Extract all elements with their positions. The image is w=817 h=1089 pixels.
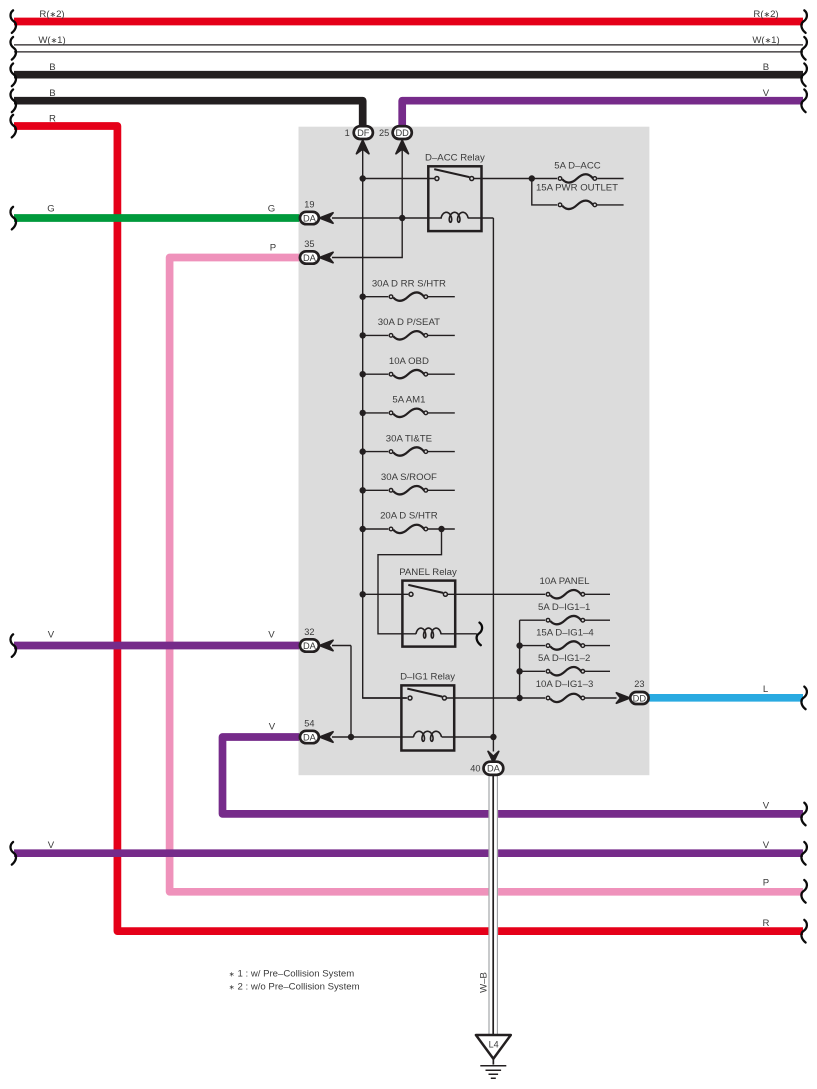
wire R left to bottom R [14, 126, 803, 931]
connector DD pin 23 [630, 692, 648, 704]
wire left fuse row 3 output [426, 373, 455, 375]
svg-text:D–ACC Relay: D–ACC Relay [425, 153, 485, 164]
wire B to DF pin 1 [14, 101, 363, 126]
break mark left edge B [10, 90, 15, 113]
svg-text:DA: DA [303, 253, 317, 263]
break mark right edge V [801, 842, 806, 865]
wire D-ACC relay contact feed [363, 178, 435, 180]
svg-text:V: V [48, 630, 55, 641]
break mark right edge L [801, 687, 806, 710]
svg-text:30A D P/SEAT: 30A D P/SEAT [378, 317, 440, 328]
svg-text:1: 1 [345, 128, 350, 138]
connector DA pin 40 [484, 762, 504, 775]
node IG1 bus tap output line [516, 695, 522, 701]
break mark right edge W(*1) [801, 37, 806, 60]
wire left fuse row 2 feed [363, 334, 389, 336]
wire G to DA pin 19 [14, 214, 299, 222]
connector DD pin 25 [393, 126, 412, 139]
svg-text:B: B [763, 62, 769, 73]
relay PANEL Relay [402, 581, 455, 647]
svg-text:DA: DA [303, 213, 317, 223]
fuse 15A D-IG1-4 [546, 641, 584, 649]
relay D-ACC Relay switch contact pins [435, 177, 439, 181]
break mark PANEL coil return off-page [477, 623, 482, 646]
svg-text:G: G [268, 204, 275, 215]
svg-text:30A D RR S/HTR: 30A D RR S/HTR [372, 278, 446, 289]
connector DA pin 32 [300, 639, 319, 651]
wire 5A D-IG1-1 feed [520, 619, 546, 621]
wire 5A D-IG1-1 output [583, 619, 610, 621]
svg-text:R(∗2): R(∗2) [753, 9, 778, 20]
wire IG1 fuse bus vertical [519, 620, 521, 698]
svg-text:5A D–ACC: 5A D–ACC [554, 160, 600, 171]
wire left fuse row 1 output [426, 296, 455, 298]
node fuse pair branch [529, 175, 535, 181]
wire D-IG1 relay contact feed [363, 697, 407, 699]
break mark right edge V [801, 90, 806, 113]
svg-text:R: R [49, 114, 56, 125]
wire ACC feed from DD pin 25 [332, 150, 402, 258]
fuse 30A D P/SEAT [389, 331, 427, 339]
svg-text:20A D S/HTR: 20A D S/HTR [380, 511, 438, 522]
wire left fuse row 7 output [426, 528, 455, 530]
relay D-IG1 Relay coil [414, 731, 442, 741]
wire P from DA pin 35 [170, 258, 803, 892]
svg-text:5A D–IG1–2: 5A D–IG1–2 [538, 653, 590, 664]
wire left fuse row 2 output [426, 334, 455, 336]
wire 15A PWR OUTLET output [596, 204, 624, 206]
wire D-IG1 relay contact output [446, 697, 546, 699]
wire main feed from DF pin 1 [363, 150, 407, 699]
wire L from DD pin 23 [649, 694, 803, 702]
node PANEL contact feed tap [360, 591, 366, 597]
svg-text:5A D–IG1–1: 5A D–IG1–1 [538, 602, 590, 613]
break mark left edge W(*1) [10, 37, 15, 60]
svg-text:∗ 1 : w/ Pre–Collision System: ∗ 1 : w/ Pre–Collision System [229, 968, 354, 979]
wire PANEL relay contact output [447, 593, 545, 595]
node coil return to ground tap [490, 734, 496, 740]
wire D-ACC relay contact output [473, 178, 532, 180]
ground L4 [476, 1035, 511, 1059]
svg-text:B: B [49, 62, 55, 73]
wire 5A D-IG1-2 feed [520, 670, 546, 672]
svg-text:R: R [763, 918, 770, 929]
terminal arrow into DA pin 35 [320, 252, 333, 262]
node fuse row 3 tap [360, 371, 366, 377]
wire V lower straight [14, 849, 803, 857]
svg-text:B: B [49, 88, 55, 99]
svg-text:L4: L4 [489, 1039, 499, 1049]
svg-text:30A TI&TE: 30A TI&TE [386, 433, 432, 444]
wire R(*2) top [14, 18, 803, 26]
node fuse row 2 tap [360, 332, 366, 338]
terminal arrow into DA pin 40 [488, 751, 499, 762]
terminal arrow into DD pin 25 [396, 140, 408, 153]
wire PANEL relay contact feed [363, 593, 409, 595]
wire W-B ground wire [488, 775, 498, 1035]
relay D-ACC Relay switch blade [434, 169, 469, 177]
svg-text:DA: DA [303, 732, 317, 742]
svg-text:P: P [270, 243, 276, 254]
fuse 30A D RR S/HTR [389, 292, 427, 300]
node 20A output branch [438, 526, 444, 532]
wire left fuse row 5 feed [363, 451, 389, 453]
wire D-ACC relay coil line from DA 19 [332, 217, 442, 219]
svg-text:10A D–IG1–3: 10A D–IG1–3 [536, 679, 594, 690]
break mark right edge R(*2) [801, 10, 806, 33]
fuse 30A TI&amp;TE [389, 447, 427, 455]
svg-text:L: L [763, 684, 769, 695]
node fuse row 7 tap [360, 526, 366, 532]
wire left fuse row 1 feed [363, 296, 389, 298]
node fuse row 4 tap [360, 410, 366, 416]
svg-text:35: 35 [304, 239, 314, 249]
svg-text:40: 40 [470, 764, 480, 774]
wire 20A D S/HTR branch to PANEL relay coil [378, 529, 442, 634]
terminal arrow into DA pin 19 [320, 213, 333, 223]
fuse 10A D-IG1-3 [546, 694, 584, 702]
svg-text:15A D–IG1–4: 15A D–IG1–4 [536, 627, 594, 638]
fuse 20A D S/HTR [389, 525, 427, 533]
svg-text:V: V [269, 722, 276, 733]
svg-text:W–B: W–B [478, 972, 489, 993]
wire 10A D-IG1-3 output to DD pin 23 [583, 697, 616, 699]
wire coil return bus to 40 DA [492, 218, 494, 752]
node DA32/DA54 junction [348, 734, 354, 740]
wire PANEL relay coil return [440, 633, 476, 635]
break mark right edge P [801, 880, 806, 903]
wire DA 32 link to coil line [332, 646, 351, 738]
relay PANEL Relay switch contact pins [409, 592, 413, 596]
svg-text:19: 19 [304, 199, 314, 209]
svg-text:5A AM1: 5A AM1 [392, 395, 425, 406]
svg-text:W(∗1): W(∗1) [752, 35, 779, 46]
wire left fuse row 6 output [426, 489, 455, 491]
svg-text:10A OBD: 10A OBD [389, 356, 429, 367]
wire W(*1) white outline [14, 45, 803, 51]
junction block (driver side J/B) [299, 127, 650, 776]
break mark right edge V [801, 803, 806, 826]
svg-text:15A PWR OUTLET: 15A PWR OUTLET [536, 183, 618, 194]
svg-text:54: 54 [304, 718, 314, 728]
wire V to DD pin 25 [402, 101, 803, 126]
svg-text:W(∗1): W(∗1) [38, 35, 65, 46]
break mark right edge R [801, 920, 806, 943]
relay PANEL Relay switch blade [408, 585, 443, 593]
wire left fuse row 6 feed [363, 489, 389, 491]
svg-text:V: V [48, 840, 55, 851]
svg-text:30A S/ROOF: 30A S/ROOF [381, 472, 437, 483]
wire left fuse row 5 output [426, 451, 455, 453]
node DD bus tap at DA19 line [399, 215, 405, 221]
fuse 5A D-ACC [558, 174, 596, 182]
svg-text:DA: DA [487, 764, 501, 774]
svg-text:25: 25 [379, 128, 389, 138]
relay D-IG1 Relay [401, 685, 454, 750]
wire B upper [14, 71, 803, 79]
fuse 30A S/ROOF [389, 486, 427, 494]
relay D-ACC Relay coil [441, 212, 468, 222]
node IG1 bus tap 5A D-IG1-2 [516, 668, 522, 674]
wire 15A PWR OUTLET branch [532, 179, 557, 205]
svg-text:∗ 2 : w/o Pre–Collision System: ∗ 2 : w/o Pre–Collision System [229, 981, 360, 992]
node fuse row 5 tap [360, 448, 366, 454]
wire left fuse row 7 feed [363, 528, 389, 530]
connector DA pin 54 [300, 731, 319, 743]
wire left fuse row 3 feed [363, 373, 389, 375]
node fuse row 6 tap [360, 487, 366, 493]
wire 5A D-ACC fuse feed [532, 178, 557, 180]
svg-text:DF: DF [357, 128, 370, 138]
svg-text:V: V [763, 801, 770, 812]
wire 15A D-IG1-4 output [583, 645, 610, 647]
break mark left edge V [10, 842, 15, 865]
svg-text:PANEL Relay: PANEL Relay [399, 567, 457, 578]
ground hatching [480, 1066, 506, 1078]
relay D-IG1 Relay switch blade [407, 689, 442, 697]
wire left fuse row 4 feed [363, 412, 389, 414]
terminal arrow into DA pin 32 [320, 640, 333, 650]
svg-text:32: 32 [304, 627, 314, 637]
terminal arrow into DF pin 1 [357, 140, 369, 153]
connector DA pin 35 [300, 251, 319, 263]
relay PANEL Relay coil [416, 628, 441, 638]
break mark left edge G [10, 207, 15, 230]
wire 5A D-ACC fuse output [597, 178, 623, 180]
break mark left edge V [10, 634, 15, 657]
svg-text:D–IG1 Relay: D–IG1 Relay [400, 671, 455, 682]
terminal arrow into DD pin 23 [616, 693, 629, 703]
wire D-IG1 coil return [442, 736, 494, 738]
fuse 10A OBD [389, 370, 427, 378]
wire 10A PANEL fuse output [583, 593, 610, 595]
wire D-IG1 relay coil line from DA 54 [332, 736, 414, 738]
wire 15A D-IG1-4 feed [520, 645, 546, 647]
svg-text:V: V [268, 630, 275, 641]
wire V from DA pin 54 [223, 737, 804, 814]
svg-text:G: G [47, 204, 54, 215]
svg-text:P: P [763, 878, 769, 889]
connector DA pin 19 [300, 212, 319, 224]
svg-text:DA: DA [303, 641, 317, 651]
break mark right edge B [801, 64, 806, 87]
node IG1 bus tap 15A D-IG1-4 [516, 642, 522, 648]
svg-text:V: V [763, 840, 770, 851]
fuse 10A PANEL [546, 590, 584, 598]
wire left fuse row 4 output [426, 412, 455, 414]
svg-text:23: 23 [634, 679, 644, 689]
node D-ACC contact feed tap [360, 175, 366, 181]
wire V to DA pin 32 [14, 642, 299, 650]
svg-text:DD: DD [395, 128, 409, 138]
node fuse row 1 tap [360, 294, 366, 300]
break mark left edge R [10, 115, 15, 138]
svg-text:V: V [763, 88, 770, 99]
wire 5A D-IG1-2 output [583, 670, 610, 672]
fuse 5A AM1 [389, 409, 427, 417]
svg-text:DD: DD [633, 693, 647, 703]
relay D-ACC Relay [428, 166, 481, 231]
break mark left edge B [10, 64, 15, 87]
break mark left edge R(*2) [10, 10, 15, 33]
wire D-ACC coil return [468, 217, 494, 219]
connector DF [354, 126, 373, 139]
svg-text:10A PANEL: 10A PANEL [540, 576, 591, 587]
relay D-IG1 Relay switch contact pins [408, 696, 412, 700]
fuse 5A D-IG1-2 [546, 667, 584, 675]
fuse 5A D-IG1-1 [546, 616, 584, 624]
fuse 15A PWR OUTLET [558, 201, 596, 209]
svg-text:R(∗2): R(∗2) [39, 9, 64, 20]
terminal arrow into DA pin 54 [320, 732, 333, 742]
